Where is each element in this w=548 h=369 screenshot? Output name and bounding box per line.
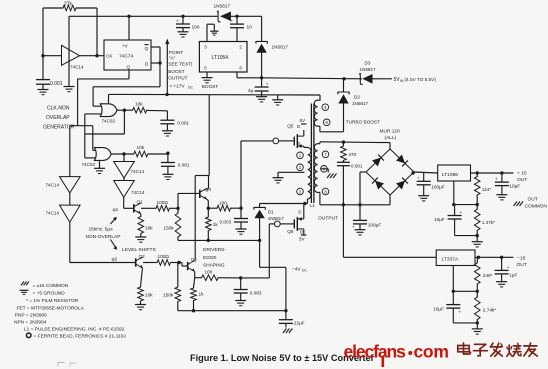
svg-text:249*: 249* bbox=[483, 273, 493, 278]
diode D2 1N5817 bbox=[338, 79, 369, 106]
svg-text:0.001: 0.001 bbox=[50, 81, 63, 87]
label MUR120 bbox=[380, 129, 401, 142]
winding pins 4-6 bbox=[314, 95, 320, 126]
wire: 74C14 supply/ground vertical bbox=[68, 16, 70, 86]
wire: Q5 source to winding bbox=[298, 141, 304, 147]
svg-text:MUR 120: MUR 120 bbox=[380, 129, 401, 135]
svg-text:10μF: 10μF bbox=[433, 307, 444, 312]
svg-text:8: 8 bbox=[239, 66, 242, 71]
svg-text:D2: D2 bbox=[354, 95, 360, 100]
ground out common bbox=[514, 202, 524, 207]
svg-text:NPN = 2N3904: NPN = 2N3904 bbox=[14, 320, 47, 326]
svg-text:10k: 10k bbox=[145, 293, 153, 298]
svg-text:1N5817: 1N5817 bbox=[360, 67, 377, 72]
wire: D1 branch bbox=[259, 204, 261, 241]
resistor 10k NOR2 bbox=[134, 145, 148, 157]
label -4Vdc bbox=[292, 267, 308, 273]
diode D3 1N5817 bbox=[360, 61, 377, 85]
svg-text:com: com bbox=[414, 342, 449, 362]
resistor 10k Q2 emitter bbox=[138, 287, 154, 301]
svg-text:470: 470 bbox=[348, 152, 356, 157]
label drivers edge shaping bbox=[203, 247, 226, 269]
wire: NOR1 input 2 bbox=[85, 114, 102, 158]
svg-text:IN: IN bbox=[400, 79, 404, 83]
node pin3 bbox=[297, 188, 304, 195]
wire: Qbar to D loop bbox=[151, 47, 162, 65]
resistor 10k Q1 emitter bbox=[138, 217, 153, 234]
capacitor 4uF bbox=[248, 78, 269, 97]
legend pnp bbox=[15, 313, 47, 319]
svg-text:+: + bbox=[176, 19, 179, 24]
svg-text:6: 6 bbox=[326, 120, 329, 125]
ground on boost rail bbox=[272, 95, 283, 105]
capacitor 0.001 RC2 bbox=[161, 163, 190, 175]
wire: secondary center tap bbox=[321, 169, 328, 173]
watermark elecfans red bbox=[344, 342, 449, 368]
node pin6 bbox=[323, 119, 330, 126]
svg-text:D: D bbox=[145, 62, 149, 67]
label out common bbox=[525, 197, 548, 210]
node pin7 bbox=[322, 151, 329, 158]
wire: RC1 node bbox=[147, 110, 168, 120]
ground pin3 bbox=[210, 31, 218, 35]
capacitor 0.001 RC1 bbox=[160, 120, 189, 131]
svg-text:Q6: Q6 bbox=[287, 229, 294, 234]
wire: 74C74 +V pin bbox=[128, 16, 130, 40]
resistor 100ohm Q2 bbox=[157, 254, 171, 265]
svg-text:10k: 10k bbox=[145, 226, 153, 231]
wire: Q6 source up bbox=[298, 204, 304, 219]
svg-text:Q2: Q2 bbox=[139, 254, 146, 259]
svg-text:D: D bbox=[300, 230, 304, 235]
svg-text:1k: 1k bbox=[199, 292, 205, 297]
wire: +V rail y16 bbox=[69, 15, 262, 18]
svg-text:TURBO BOOST: TURBO BOOST bbox=[346, 120, 380, 125]
wire: neg adj bottom bbox=[453, 321, 479, 329]
wire: NOR1 output node bbox=[117, 109, 133, 112]
rectifier bridge outline bbox=[366, 149, 414, 195]
ground 4uF bbox=[256, 97, 267, 102]
svg-text:(SEE TEXT): (SEE TEXT) bbox=[167, 62, 193, 67]
svg-text:100Ω: 100Ω bbox=[157, 200, 169, 205]
wire: stage2 bottom rail bbox=[178, 309, 288, 312]
label clk-non-overlap generator bbox=[43, 106, 75, 131]
svg-text:L1 = PULSE ENGINEERING, INC.: L1 = PULSE ENGINEERING, INC. # PE-61592 bbox=[24, 327, 125, 333]
diode D4 1N5817 vertical bbox=[256, 16, 289, 78]
watermark chinese you bbox=[524, 343, 537, 356]
svg-text:(ALL): (ALL) bbox=[385, 135, 397, 141]
svg-text:100μF: 100μF bbox=[368, 223, 382, 228]
svg-text:D3: D3 bbox=[365, 61, 371, 66]
wire: -4Vdc branch bbox=[260, 240, 286, 310]
resistor 100ohm Q1 bbox=[156, 200, 170, 211]
svg-text:74C14: 74C14 bbox=[46, 183, 60, 188]
svg-text:27k: 27k bbox=[64, 2, 73, 8]
wire: 5Vin lead bbox=[372, 78, 392, 80]
svg-text:2: 2 bbox=[239, 45, 242, 50]
wire: stage1 bottom rail bbox=[178, 239, 261, 242]
wire: Q3 base node bbox=[170, 193, 200, 210]
svg-text:BOOST: BOOST bbox=[168, 69, 185, 74]
ground 22uF common bbox=[283, 329, 293, 334]
wire: Q4 collector bbox=[194, 261, 197, 263]
ground RC2 bbox=[162, 174, 173, 179]
wire: Q1 to R100 bbox=[141, 207, 156, 209]
svg-text:1: 1 bbox=[299, 153, 302, 158]
watermark chinese fa2 bbox=[490, 343, 502, 356]
legend L1 bbox=[24, 327, 125, 333]
ferrite bead Q5 gate bbox=[273, 138, 294, 144]
transistor Q4 bbox=[188, 257, 197, 272]
wire: Qbar node down to NOR1 bbox=[93, 63, 160, 106]
bridge diode top-left bbox=[372, 155, 384, 167]
svg-text:OUTPUT: OUTPUT bbox=[168, 75, 187, 80]
inverter U4c 74C14 bbox=[46, 177, 81, 193]
svg-text:74C02: 74C02 bbox=[82, 162, 96, 167]
transistor Q6 MTP3055E bbox=[287, 217, 306, 242]
svg-text:+: + bbox=[417, 176, 420, 181]
ground 100uF neg bbox=[355, 230, 366, 235]
svg-text:8: 8 bbox=[324, 189, 327, 194]
svg-text:1.37k*: 1.37k* bbox=[482, 220, 495, 225]
wire: Q4 emitter node bbox=[195, 272, 202, 278]
legend fet bbox=[17, 305, 85, 311]
ground 100uF pos bbox=[418, 196, 429, 201]
capacitor 0.003 stage2 bbox=[234, 278, 262, 301]
capacitor 10 pin2 bbox=[230, 16, 252, 41]
svg-text:+: + bbox=[507, 265, 510, 270]
ground Q2 bbox=[135, 301, 146, 310]
wire: +15 output bbox=[471, 171, 514, 174]
svg-text:1N5817: 1N5817 bbox=[214, 4, 231, 9]
wire: Q6 gate drive bbox=[218, 224, 274, 280]
ground 0.003 stage2 bbox=[235, 301, 246, 306]
bridge diode bottom-right bbox=[396, 178, 408, 190]
wire: winding6 to D2 bbox=[320, 126, 344, 132]
ic U6 LT1086 bbox=[438, 165, 471, 181]
capacitor 1uF neg out bbox=[495, 257, 518, 281]
svg-text:100: 100 bbox=[205, 270, 213, 275]
ic U5 LT1054 bbox=[199, 42, 247, 73]
svg-text:+: + bbox=[460, 210, 463, 215]
resistor 150k stage1 bbox=[164, 208, 181, 240]
svg-text:elecfans: elecfans bbox=[344, 342, 407, 362]
wire: cross couple NOR1 to NOR2 bbox=[85, 110, 125, 158]
legend common symbol bbox=[21, 282, 69, 290]
wire: Q2 emitter bbox=[141, 268, 143, 287]
svg-text:74C14: 74C14 bbox=[70, 64, 84, 69]
capacitor 0.001 snubber bbox=[337, 161, 363, 205]
wire: pin3 loop bbox=[207, 24, 214, 41]
label 5Vin bbox=[394, 77, 437, 83]
capacitor 100uF pos bbox=[417, 173, 445, 196]
svg-text:3: 3 bbox=[204, 45, 207, 50]
svg-text:DRIVERS-: DRIVERS- bbox=[203, 247, 226, 253]
node pin8 mid bbox=[321, 166, 328, 173]
label -15 out bbox=[517, 256, 527, 269]
svg-text:+: + bbox=[352, 225, 355, 230]
resistor 150k stage2 bbox=[163, 263, 181, 311]
wire: boost output rail bbox=[109, 93, 321, 104]
label output bbox=[318, 216, 338, 222]
capacitor 100 boost bbox=[176, 16, 200, 32]
wire: NOR2 output node bbox=[111, 152, 134, 155]
svg-text:Q5: Q5 bbox=[287, 124, 294, 129]
svg-text:150k: 150k bbox=[164, 226, 175, 231]
svg-text:OUTPUT: OUTPUT bbox=[318, 216, 338, 222]
wire: primary tap pin2 bbox=[278, 172, 304, 177]
svg-text:100μF: 100μF bbox=[431, 185, 445, 190]
resistor 1k stage1 bbox=[206, 208, 219, 240]
svg-text:5V: 5V bbox=[299, 237, 306, 242]
bridge diode bottom-left bbox=[372, 178, 384, 190]
ground under osc cap bbox=[38, 90, 49, 95]
label level shifts bbox=[122, 247, 157, 253]
diode Dtop 1N5817 bbox=[214, 4, 231, 22]
label +15 out bbox=[517, 171, 527, 184]
ground primary tap bbox=[273, 178, 284, 183]
wire: phi1 node bbox=[113, 197, 134, 213]
inverter U4d 74C14 bbox=[46, 193, 81, 222]
inverter U4b 74C14 bbox=[114, 178, 145, 197]
watermark chinese dian bbox=[458, 343, 471, 354]
svg-text:Q: Q bbox=[145, 46, 149, 51]
svg-text:+: + bbox=[458, 310, 461, 315]
svg-text:φ1: φ1 bbox=[113, 207, 119, 213]
ferrite bead Q6 gate bbox=[274, 221, 293, 227]
svg-text:10μF: 10μF bbox=[434, 217, 445, 222]
bridge diode top-right bbox=[396, 155, 408, 167]
svg-text:15kHz, 5μs: 15kHz, 5μs bbox=[89, 227, 114, 233]
svg-text:100: 100 bbox=[192, 25, 200, 31]
svg-text:10: 10 bbox=[247, 25, 253, 31]
capacitor C 0.001 osc bbox=[36, 56, 63, 90]
svg-text:D1: D1 bbox=[268, 210, 274, 215]
svg-text:LT1054: LT1054 bbox=[212, 55, 229, 61]
resistor 2.74k bbox=[475, 291, 497, 323]
node pin1 bbox=[297, 152, 304, 159]
wire: -15 output bbox=[475, 256, 514, 259]
svg-text:5V: 5V bbox=[300, 118, 307, 123]
wire: pin8 to 5V rail bbox=[237, 72, 263, 80]
resistor 1.37k bbox=[474, 205, 495, 236]
transistor Q1 bbox=[134, 200, 143, 214]
svg-text:+ 15: + 15 bbox=[517, 171, 527, 177]
svg-text:FET = MTP3055E-MOTOROLA: FET = MTP3055E-MOTOROLA bbox=[17, 305, 85, 311]
resistor 1k stage2 bbox=[191, 278, 204, 311]
svg-text:0.001: 0.001 bbox=[178, 163, 190, 168]
wire: phi2 node bbox=[70, 222, 136, 262]
svg-text:φ2: φ2 bbox=[112, 257, 118, 263]
svg-text:2: 2 bbox=[299, 165, 302, 170]
wire: bridge bottom rail bbox=[320, 195, 390, 207]
svg-text:S: S bbox=[298, 210, 301, 215]
label 15kHz non-overlap bbox=[86, 227, 121, 240]
watermark chinese shao bbox=[507, 343, 521, 356]
transistor Q5 MTP3055E bbox=[287, 118, 306, 148]
node pin8 bbox=[322, 188, 329, 195]
svg-text:BOOST: BOOST bbox=[202, 84, 219, 89]
svg-text:EDGE: EDGE bbox=[203, 255, 217, 261]
svg-text:COMMON: COMMON bbox=[525, 204, 548, 210]
ground 1uF bbox=[496, 282, 507, 287]
wire: bridge right to LT1086 bbox=[411, 171, 437, 174]
wire: Q1 emitter bbox=[140, 214, 142, 217]
transistor Q3 bbox=[200, 187, 212, 199]
svg-text:CLK-NON: CLK-NON bbox=[47, 106, 70, 112]
capacitor 10uF adj pos bbox=[434, 205, 463, 236]
svg-text:SHAPING: SHAPING bbox=[203, 263, 225, 269]
ground 1.37k bbox=[472, 242, 483, 247]
svg-text:NON-OVERLAP: NON-OVERLAP bbox=[86, 234, 121, 240]
label boost bbox=[202, 84, 219, 89]
svg-text:OUT: OUT bbox=[517, 177, 527, 183]
resistor 100 edge shaping 1 bbox=[217, 201, 231, 212]
svg-text:"A": "A" bbox=[169, 55, 176, 60]
svg-text:0.001: 0.001 bbox=[177, 121, 189, 126]
gate U3b 74C02 NOR2 bbox=[82, 148, 112, 167]
svg-text:LEVEL SHIFTS: LEVEL SHIFTS bbox=[122, 247, 157, 253]
annotation arrow down bbox=[111, 240, 118, 250]
wire: inverter input bbox=[41, 54, 61, 57]
svg-text:Q4: Q4 bbox=[191, 257, 198, 262]
svg-text:Q1: Q1 bbox=[137, 200, 144, 205]
capacitor 100uF neg bbox=[352, 205, 381, 230]
wire: inverter output node bbox=[80, 54, 105, 57]
wire: D2 to winding6 bbox=[343, 103, 345, 132]
wire: Q3 collector bbox=[207, 176, 209, 190]
svg-text:−15: −15 bbox=[517, 256, 526, 262]
wire: Q4 base node bbox=[171, 261, 188, 266]
wire: phi2 chain feed bbox=[69, 126, 71, 177]
wire: LT337A adj bbox=[452, 266, 479, 293]
legend ferrite bead bbox=[26, 333, 126, 340]
svg-text:POINT: POINT bbox=[169, 50, 183, 55]
svg-text:+V: +V bbox=[122, 44, 129, 49]
svg-text:4μ: 4μ bbox=[248, 88, 254, 93]
winding pins 1-2-3 bbox=[304, 147, 311, 199]
resistor R 27k bbox=[63, 2, 76, 11]
wire: Q5 gate drive bbox=[231, 141, 273, 210]
svg-text:≈ +17V: ≈ +17V bbox=[170, 84, 186, 89]
resistor 10k NOR1 bbox=[133, 102, 147, 114]
svg-text:DC: DC bbox=[188, 86, 193, 90]
svg-text:74C02: 74C02 bbox=[102, 119, 116, 124]
svg-text:74C74: 74C74 bbox=[119, 54, 133, 60]
ground NOR2 bbox=[94, 160, 105, 173]
svg-text:LT1086: LT1086 bbox=[442, 172, 459, 178]
svg-text:22μF: 22μF bbox=[294, 321, 305, 326]
label point A text bbox=[167, 50, 194, 90]
ground under 74C14 bbox=[64, 87, 75, 92]
scan artifact marks bottom left bbox=[58, 363, 76, 367]
flip-flop U2 74C74 bbox=[104, 40, 151, 70]
svg-text:D: D bbox=[297, 124, 301, 129]
svg-text:= +5 GROUND: = +5 GROUND bbox=[33, 291, 66, 297]
caption figure 1 bbox=[190, 353, 375, 363]
svg-text:+: + bbox=[266, 82, 269, 87]
svg-text:124*: 124* bbox=[482, 187, 492, 192]
svg-text:74C14: 74C14 bbox=[131, 190, 145, 195]
svg-text:(4.5V TO 5.5V): (4.5V TO 5.5V) bbox=[405, 77, 437, 82]
ic U7 LT337A bbox=[436, 250, 475, 266]
wire: bridge left leg bbox=[358, 172, 366, 207]
svg-text:= FERRITE BEAD, FERRONICS # 2: = FERRITE BEAD, FERRONICS # 21-110J bbox=[34, 334, 127, 340]
wire: transformer bottom node bbox=[260, 199, 316, 209]
wire: Q3 emitter node bbox=[207, 199, 217, 210]
svg-text:* = 1% FILM RESISTOR: * = 1% FILM RESISTOR bbox=[26, 298, 79, 304]
wire: feedback top bbox=[43, 8, 97, 56]
capacitor 0.003 stage1 bbox=[220, 208, 249, 229]
svg-text:0.003: 0.003 bbox=[250, 291, 262, 296]
wire: LT1086 adj bbox=[452, 181, 479, 206]
wire: pin5 bbox=[206, 72, 208, 78]
ground secondary tap common bbox=[327, 174, 337, 179]
svg-text:10k: 10k bbox=[135, 102, 143, 107]
svg-text:0.003: 0.003 bbox=[220, 220, 232, 225]
ground 0.003 stage1 bbox=[236, 229, 247, 234]
svg-text:S: S bbox=[298, 141, 301, 146]
svg-text:100Ω: 100Ω bbox=[158, 254, 170, 259]
inverter U4a 74C14 bbox=[114, 162, 145, 179]
svg-text:7: 7 bbox=[324, 152, 327, 157]
node point A arrow bbox=[165, 39, 169, 95]
resistor 124 bbox=[474, 173, 491, 205]
svg-text:DC: DC bbox=[302, 269, 307, 273]
capacitor 10uF pos out bbox=[495, 173, 520, 195]
gate U3a 74C02 NOR1 bbox=[100, 104, 117, 124]
svg-text:4: 4 bbox=[324, 105, 327, 110]
legend npn bbox=[14, 320, 47, 326]
svg-text:2.74k*: 2.74k* bbox=[483, 308, 496, 313]
diode D1 1N5817 bbox=[254, 207, 285, 220]
wire: bridge top rail bbox=[320, 140, 390, 149]
svg-text:L1: L1 bbox=[310, 203, 316, 209]
wire: phi1 chain feed bbox=[123, 154, 125, 162]
svg-text:= ±15 COMMON: = ±15 COMMON bbox=[33, 283, 69, 289]
legend film resistor bbox=[26, 298, 79, 304]
svg-text:10μF: 10μF bbox=[509, 184, 520, 189]
capacitor 10uF adj neg bbox=[433, 291, 461, 323]
annotation arrow up bbox=[111, 217, 117, 224]
ground Q1 bbox=[135, 234, 146, 243]
svg-text:1N5817: 1N5817 bbox=[268, 216, 285, 221]
capacitor 22uF bbox=[279, 311, 305, 328]
svg-text:5: 5 bbox=[204, 66, 207, 71]
svg-text:Q: Q bbox=[127, 65, 131, 70]
resistor 249 bbox=[475, 257, 493, 291]
svg-text:1N5817: 1N5817 bbox=[272, 45, 289, 50]
node pin2 bbox=[297, 164, 304, 171]
label turbo boost bbox=[346, 120, 380, 125]
wire: Q output staircase to NOR2 bbox=[70, 70, 129, 150]
svg-text:1μF: 1μF bbox=[509, 273, 517, 278]
transformer core bbox=[311, 104, 314, 204]
wire: 5V rail to D3 bbox=[262, 77, 362, 80]
node pin4 bbox=[322, 104, 329, 111]
svg-text:0.001: 0.001 bbox=[351, 164, 363, 169]
wire: Q2 to R100 bbox=[143, 262, 157, 264]
svg-text:1k: 1k bbox=[213, 222, 219, 227]
ground 10uF pos bbox=[496, 195, 507, 200]
resistor 470 snubber bbox=[341, 142, 357, 160]
winding pins 7-8 bbox=[314, 142, 320, 205]
svg-text:100: 100 bbox=[219, 201, 227, 206]
svg-text:PNP = 2N3906: PNP = 2N3906 bbox=[15, 313, 47, 319]
ground cap100 bbox=[178, 32, 189, 37]
ground pin5 bbox=[202, 78, 213, 83]
svg-text:74C14: 74C14 bbox=[46, 211, 60, 216]
